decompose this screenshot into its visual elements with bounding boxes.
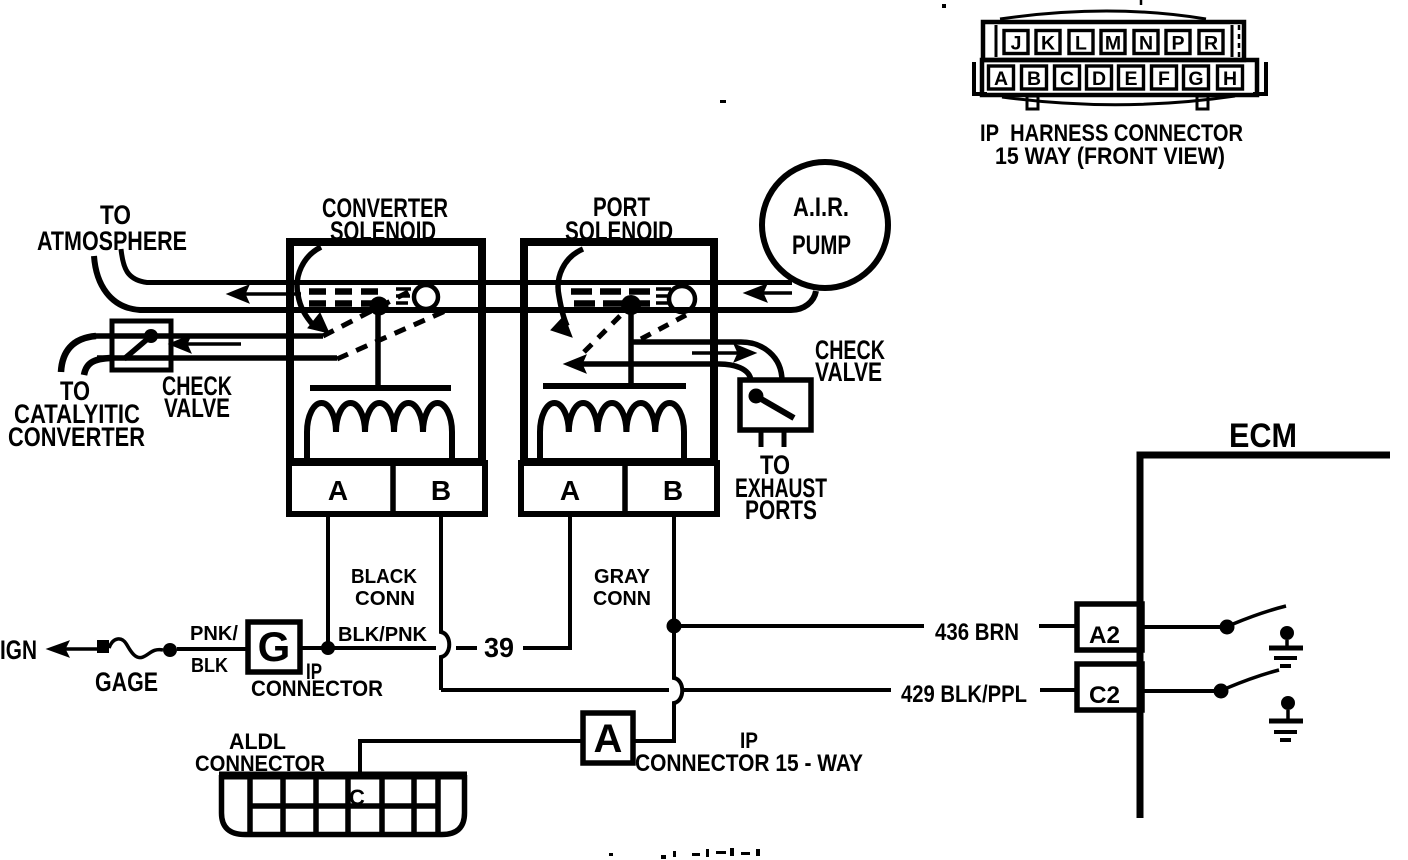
converter solenoid U1 box	[290, 242, 482, 462]
pipe: converter to check valve lower line	[97, 355, 337, 361]
label: ALDL CONNECTOR	[195, 729, 325, 776]
switch S1 contact dot	[1220, 620, 1235, 635]
switch S2 blade	[1227, 670, 1279, 688]
mounting tabs	[1027, 96, 1038, 109]
port solenoid dashed flap (lower-left)	[584, 308, 628, 352]
svg-text:E: E	[1124, 68, 1137, 90]
svg-text:ATMOSPHERE: ATMOSPHERE	[37, 226, 187, 256]
svg-text:B: B	[663, 475, 683, 506]
arrow toward exhaust check valve	[692, 344, 756, 362]
bottom arc	[1002, 96, 1235, 105]
check valve CV2 box (right)	[740, 380, 811, 430]
check valve CV1 pivot dot	[144, 329, 158, 343]
check valve CV2 flap	[756, 396, 794, 418]
label: A.I.R. PUMP	[792, 192, 851, 260]
pipe curved inlet to catalytic converter (upper)	[61, 336, 96, 372]
port solenoid valve passage dashes	[571, 288, 652, 295]
svg-text:PNK/: PNK/	[190, 623, 238, 645]
svg-text:PORTS: PORTS	[745, 495, 817, 525]
label: TO CATALYITIC CONVERTER	[8, 376, 145, 452]
svg-text:BLK/PNK: BLK/PNK	[338, 624, 428, 646]
converter solenoid plunger stem	[375, 306, 381, 388]
port solenoid dashed flap (upper-right)	[641, 314, 688, 339]
svg-text:436 BRN: 436 BRN	[935, 619, 1019, 646]
converter solenoid valve passage dashes	[309, 288, 383, 295]
svg-text:D: D	[1092, 68, 1106, 90]
svg-text:F: F	[1158, 68, 1170, 90]
wire 39 to port solenoid A	[523, 517, 570, 648]
label: IP CONNECTOR (G)	[251, 659, 383, 701]
wire port solenoid B down to junction	[672, 517, 676, 626]
svg-text:BLK: BLK	[191, 655, 228, 677]
pipe: port solenoid to exhaust check valve lower line with arrowhead	[564, 355, 751, 381]
switch S1 blade	[1233, 606, 1286, 624]
svg-text:IGN: IGN	[0, 635, 37, 665]
pipe: port solenoid to exhaust check valve upper line	[633, 342, 782, 381]
converter solenoid spring	[396, 289, 411, 303]
upper shell	[983, 22, 1244, 60]
port solenoid plunger T-bar	[543, 383, 686, 389]
label: IP HARNESS CONNECTOR 15 WAY (FRONT VIEW)	[980, 120, 1243, 170]
label: CHECK VALVE (right)	[815, 335, 885, 387]
converter solenoid valve ball	[414, 285, 438, 309]
svg-text:39: 39	[484, 632, 514, 663]
label: TO ATMOSPHERE	[37, 200, 187, 256]
converter solenoid pivot dot	[370, 297, 389, 316]
wire C2 to driver switch	[1142, 689, 1216, 693]
svg-text:GRAY: GRAY	[594, 566, 651, 588]
svg-text:GAGE: GAGE	[95, 667, 158, 697]
switch S2 contact dot	[1214, 684, 1229, 699]
svg-text:N: N	[1139, 33, 1153, 55]
check valve CV2 pivot dot	[749, 389, 764, 404]
svg-text:A: A	[994, 68, 1008, 90]
label: IP CONNECTOR 15 - WAY	[635, 728, 863, 777]
ECM block outline	[1140, 455, 1390, 818]
junction node (converter A to BLK/PNK)	[321, 641, 335, 655]
ALDL grid dividers	[250, 779, 438, 834]
wire 429 horizontal run	[441, 688, 669, 692]
left bracket	[974, 62, 987, 94]
wire from A box to ALDL pin C	[360, 741, 583, 772]
arrow in pipe (near pump)	[744, 284, 792, 302]
svg-text:P: P	[1171, 33, 1184, 55]
svg-text:G: G	[1188, 68, 1203, 90]
fusible link square	[97, 640, 109, 653]
lower shell	[982, 60, 1257, 95]
label: PORT SOLENOID	[565, 192, 673, 246]
converter solenoid terminal row	[289, 463, 485, 514]
svg-text:H: H	[1223, 68, 1237, 90]
converter solenoid internal curved arrow	[297, 247, 329, 333]
arrow in pipe (left, atmosphere)	[227, 285, 301, 303]
junction node (436 branch)	[667, 619, 682, 634]
wire segment before 39	[456, 646, 477, 650]
ground G1 (quiet driver)	[1269, 626, 1303, 666]
svg-text:L: L	[1075, 33, 1087, 55]
svg-text:R: R	[1204, 33, 1218, 55]
IP connector A box	[583, 713, 633, 763]
svg-text:A: A	[560, 475, 580, 506]
junction dot after fuse	[163, 643, 177, 657]
ALDL connector body	[219, 772, 467, 835]
connector J1 IP harness 15-way (front view)	[974, 0, 1266, 109]
svg-text:C: C	[1060, 68, 1074, 90]
svg-text:CONNECTOR 15 - WAY: CONNECTOR 15 - WAY	[635, 750, 863, 777]
label: TO EXHAUST PORTS	[735, 450, 827, 525]
label: BLACK CONN	[351, 566, 418, 610]
check valve CV1 flap	[124, 336, 151, 359]
wire PNK/BLK to G connector	[177, 647, 248, 651]
pin boxes J K L M N P R (top row)	[1004, 31, 1223, 54]
pipe: atmosphere lower line with curved inlet and pump cap	[94, 256, 816, 310]
svg-text:15 WAY (FRONT VIEW): 15 WAY (FRONT VIEW)	[995, 143, 1225, 170]
check valve CV2 outlet legs	[759, 430, 764, 447]
port solenoid coil L2	[540, 403, 684, 461]
svg-text:J: J	[1011, 33, 1022, 55]
label: CONVERTER SOLENOID	[322, 193, 448, 246]
svg-text:CONN: CONN	[593, 588, 651, 610]
svg-text:C2: C2	[1089, 682, 1120, 709]
pipe curved inlet to catalytic converter (lower)	[84, 358, 112, 375]
converter solenoid plunger T-bar	[310, 385, 451, 391]
svg-text:A2: A2	[1089, 622, 1120, 649]
ECM pin C2 box	[1077, 664, 1142, 710]
pipe: converter to check valve upper line	[95, 333, 323, 339]
port solenoid pivot dot	[621, 295, 641, 315]
svg-text:G: G	[258, 623, 291, 670]
IP connector G box	[248, 622, 300, 672]
svg-text:M: M	[1105, 33, 1121, 55]
label: GRAY CONN	[593, 566, 651, 610]
converter solenoid dashed flap (lower)	[337, 308, 452, 359]
svg-text:K: K	[1041, 33, 1055, 55]
svg-text:ECM: ECM	[1229, 417, 1297, 455]
svg-text:PUMP: PUMP	[792, 230, 851, 260]
ECM pin A2 box	[1077, 604, 1142, 650]
port solenoid U2 box	[524, 242, 714, 462]
check valve CV1 box (left)	[112, 321, 171, 370]
wire converter solenoid A down to junction	[326, 517, 330, 643]
fusible link wiggle (GAGE fuse wire)	[109, 639, 163, 658]
pin boxes A B C D E F G H (bottom row)	[989, 66, 1243, 89]
svg-text:VALVE: VALVE	[164, 393, 230, 423]
port solenoid internal curved arrow	[551, 249, 583, 337]
svg-text:CONN: CONN	[355, 588, 415, 610]
svg-text:CONNECTOR: CONNECTOR	[251, 676, 383, 701]
svg-text:B: B	[431, 475, 451, 506]
wire 429 segment to C2	[1040, 688, 1077, 692]
svg-text:A.I.R.: A.I.R.	[793, 192, 849, 222]
label: CHECK VALVE (left)	[162, 371, 232, 423]
wire A2 to driver switch	[1142, 625, 1222, 629]
top arc	[1000, 11, 1206, 19]
svg-text:VALVE: VALVE	[815, 357, 882, 387]
svg-text:C: C	[349, 785, 365, 810]
svg-text:A: A	[328, 475, 348, 506]
svg-text:B: B	[1027, 68, 1041, 90]
port solenoid spring	[656, 289, 671, 303]
converter solenoid dashed flap (upper)	[323, 290, 412, 336]
label: PNK/ BLK	[190, 623, 238, 677]
A.I.R. pump circle	[762, 162, 888, 288]
svg-text:BLACK: BLACK	[351, 566, 418, 588]
port solenoid plunger stem	[628, 305, 634, 386]
wire port B down to IP connector A with hop over 429	[633, 626, 682, 741]
scan specks	[609, 4, 946, 859]
wire 436 BRN run	[681, 624, 924, 628]
right bracket	[1253, 62, 1266, 94]
arrow into check valve CV1	[169, 335, 241, 353]
port solenoid valve ball	[669, 286, 695, 312]
wire converter solenoid B down with hop over 39	[441, 517, 449, 690]
svg-text:A: A	[594, 717, 623, 761]
svg-text:CONVERTER: CONVERTER	[8, 422, 145, 452]
converter solenoid coil L1	[307, 403, 452, 461]
wire to IGN with arrowhead	[47, 641, 97, 657]
svg-text:429 BLK/PPL: 429 BLK/PPL	[901, 681, 1027, 708]
ground G2 (quiet driver)	[1269, 696, 1303, 740]
wire BLK/PNK from G to circuit 39	[300, 646, 436, 650]
port solenoid terminal row	[521, 463, 717, 514]
pipe: atmosphere upper line with curved inlet	[121, 249, 792, 283]
